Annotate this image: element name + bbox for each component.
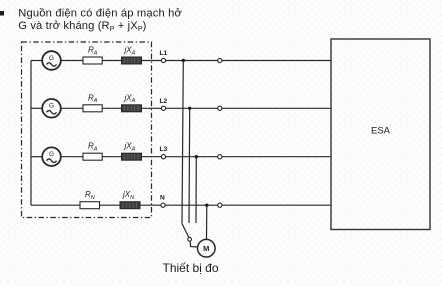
svg-text:RA: RA — [88, 93, 98, 104]
switch arm — [182, 223, 189, 237]
resistor RA row1 — [83, 57, 102, 64]
source dash-dot boundary box — [22, 42, 152, 218]
svg-text:Nguồn điện có điện áp mạch hở: Nguồn điện có điện áp mạch hở — [18, 8, 182, 20]
wire: R1 to X1 — [102, 60, 121, 62]
terminal circle Nb — [218, 203, 222, 207]
wire: G1 to R1 — [61, 60, 83, 62]
node junction L2 — [188, 107, 191, 110]
terminal circle N — [161, 203, 165, 207]
meter M — [198, 239, 216, 257]
wire: left vertical bus — [30, 61, 32, 206]
wire: G3 to R3 — [61, 156, 83, 158]
node junction N — [205, 204, 208, 207]
svg-text:G và trở kháng (RP + jXP): G và trở kháng (RP + jXP) — [18, 20, 146, 33]
wire: G2 to R2 — [61, 107, 83, 109]
svg-text:Thiết bị đo: Thiết bị đo — [163, 261, 219, 275]
svg-text:jXA: jXA — [124, 93, 136, 104]
inductor jXA row1 — [122, 57, 142, 64]
inductor jXA row3 — [122, 153, 142, 160]
inductor jXN — [120, 202, 140, 209]
svg-text:G: G — [49, 55, 54, 62]
svg-text:L1: L1 — [160, 50, 168, 57]
svg-text:RA: RA — [88, 142, 98, 153]
wire: R3 to X3 — [102, 156, 121, 158]
svg-text:RN: RN — [85, 190, 95, 201]
terminal circle L1b — [218, 58, 222, 62]
node junction L1 — [182, 59, 185, 62]
wire: L2 terminal to junction — [166, 107, 218, 109]
wire: L2 to ESA — [222, 107, 331, 109]
wire: X2 to terminal L2 — [142, 107, 162, 109]
wire: N terminal to junction — [165, 204, 218, 206]
svg-text:G: G — [49, 103, 54, 110]
generator G2 — [42, 99, 61, 118]
svg-text:N: N — [160, 195, 165, 202]
wire: L1 to ESA — [222, 60, 331, 62]
switch contact circle — [188, 237, 192, 241]
terminal circle L2 — [161, 106, 165, 110]
wire: L1 drop — [182, 61, 183, 224]
svg-text:L3: L3 — [160, 146, 168, 153]
wire: N row from bus — [31, 204, 80, 206]
wire: L2 drop — [188, 108, 191, 223]
svg-text:G: G — [49, 151, 54, 158]
generator G3 — [42, 147, 61, 166]
wire: row2 bus to generator — [31, 107, 42, 109]
terminal circle L2b — [218, 106, 222, 110]
node junction L3 — [195, 155, 198, 158]
terminal circle L1 — [161, 58, 165, 62]
svg-text:L2: L2 — [160, 98, 168, 105]
terminal circle L3 — [161, 155, 165, 159]
resistor RN — [80, 202, 100, 209]
generator G1 — [42, 51, 61, 70]
wire: switch to meter — [190, 241, 198, 247]
terminal circle L3b — [218, 155, 222, 159]
wire: X1 to terminal L1 — [142, 60, 162, 62]
resistor RA row3 — [83, 153, 102, 160]
wire: XN to terminal N — [140, 204, 161, 206]
svg-text:ESA: ESA — [371, 126, 391, 137]
wire: L3 drop — [195, 157, 197, 223]
wire: L1 terminal to junction — [166, 60, 218, 62]
svg-text:RA: RA — [88, 46, 98, 57]
inductor jXA row2 — [122, 105, 142, 112]
svg-text:M: M — [203, 244, 209, 253]
wire: R2 to X2 — [102, 107, 121, 109]
scan artifact tick at left edge — [0, 11, 4, 16]
wire: RN to XN — [100, 204, 121, 206]
ESA box — [331, 39, 430, 230]
svg-text:jXA: jXA — [124, 142, 136, 153]
resistor RA row2 — [83, 105, 102, 112]
svg-text:jXN: jXN — [122, 190, 134, 201]
wire: L3 terminal to junction — [166, 156, 218, 158]
wire: L3 to ESA — [222, 156, 331, 158]
wire: row1 bus to generator — [31, 60, 42, 62]
wire: N to ESA — [222, 204, 331, 206]
svg-text:jXA: jXA — [124, 46, 136, 57]
wire: row3 bus to generator — [31, 156, 42, 158]
wire: N drop to meter — [206, 205, 208, 239]
wire: X3 to terminal L3 — [142, 156, 162, 158]
